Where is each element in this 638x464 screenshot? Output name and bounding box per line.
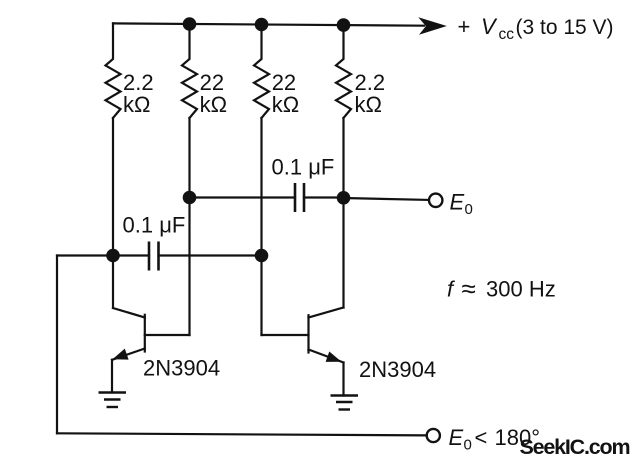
transistor Q1 collector diagonal — [113, 308, 145, 318]
wire: node D down to Q2 base lead — [260, 256, 262, 336]
svg-text:kΩ: kΩ — [123, 92, 150, 117]
node A dot (Q1 collector junction) — [106, 249, 120, 263]
svg-text:kΩ: kΩ — [272, 92, 299, 117]
svg-text:2N3904: 2N3904 — [359, 357, 436, 382]
wire: C1 right plate to node D — [159, 254, 262, 256]
transistor Q2 base bar — [307, 315, 309, 352]
capacitor C1 right plate — [157, 242, 160, 271]
node: rail junction at R2 — [183, 17, 197, 31]
svg-text:0.1 μF: 0.1 μF — [123, 213, 186, 238]
svg-text:2N3904: 2N3904 — [143, 356, 220, 381]
ground G2 — [331, 396, 359, 410]
resistor R3 22k (with top lead from rail) — [254, 25, 269, 119]
capacitor C2 left plate — [294, 183, 297, 212]
terminal: E0 output circle — [429, 194, 442, 207]
svg-text:SeekIC.com: SeekIC.com — [520, 435, 630, 459]
svg-text:+Vcc(3 to 15 V): +Vcc(3 to 15 V) — [458, 14, 614, 43]
wire: R4 bottom lead to node B — [342, 118, 344, 198]
node: rail junction at R3 — [255, 18, 269, 32]
svg-text:0: 0 — [465, 201, 473, 218]
node D dot (C1 right junction) — [255, 249, 269, 263]
svg-text:f≈300 Hz: f≈300 Hz — [447, 274, 556, 304]
transistor Q1 emitter diagonal — [112, 349, 145, 360]
transistor Q2 emitter diagonal — [309, 350, 344, 363]
wire: bottom rail to output terminal — [57, 433, 427, 435]
wire: left feedback vertical — [56, 256, 58, 434]
wire: node A to left feedback wire — [57, 254, 113, 256]
transistor Q1 emitter arrowhead — [113, 349, 129, 360]
transistor Q1 base bar — [144, 315, 146, 352]
wire: node B down to Q2 collector — [342, 198, 344, 308]
capacitor C1 left plate — [148, 242, 151, 271]
resistor R2 22k (with top lead from rail) — [182, 24, 197, 118]
resistor R4 2.2k (with top lead from rail) — [336, 25, 351, 118]
wire: node C down to Q1 base lead — [188, 198, 190, 336]
terminal: E0 180deg output circle — [427, 429, 440, 442]
node B dot (Q2 collector junction) — [337, 191, 351, 205]
ground G1 — [99, 393, 127, 408]
svg-text:0.1 μF: 0.1 μF — [272, 155, 335, 180]
wire: R1 bottom lead to node A — [112, 118, 114, 256]
node: rail junction at R4 — [337, 18, 351, 32]
svg-text:E: E — [450, 190, 465, 215]
wire: Q2 emitter to ground — [342, 363, 344, 396]
Vcc arrowhead — [418, 17, 447, 35]
svg-text:kΩ: kΩ — [355, 92, 382, 117]
resistor R1 2.2k (with top lead from rail) — [106, 23, 121, 118]
capacitor C2 right plate — [303, 183, 306, 212]
transistor Q2 emitter arrowhead — [326, 352, 342, 362]
wire: C2 right plate to node B — [304, 196, 344, 198]
transistor Q1 collector wire from node A — [112, 256, 114, 309]
wire: Q2 base lead horizontal — [262, 334, 309, 336]
wire: Q1 emitter to ground — [111, 360, 113, 393]
wire: +Vcc top rail — [113, 23, 424, 25]
capacitor C1 0.1uF: left wire from node A — [113, 254, 149, 256]
svg-text:kΩ: kΩ — [200, 92, 227, 117]
wire: R2 bottom lead to node C (C2 left node) — [188, 118, 190, 198]
wire: node B to E0 terminal — [344, 198, 429, 200]
transistor Q2 collector diagonal — [309, 308, 344, 318]
wire: Q1 base lead horizontal — [145, 334, 190, 336]
wire: R3 bottom lead to node D (C1 right node) — [260, 118, 262, 256]
capacitor C2 0.1uF: left wire from node C — [190, 196, 296, 198]
node C dot (C2 left junction) — [183, 191, 197, 205]
